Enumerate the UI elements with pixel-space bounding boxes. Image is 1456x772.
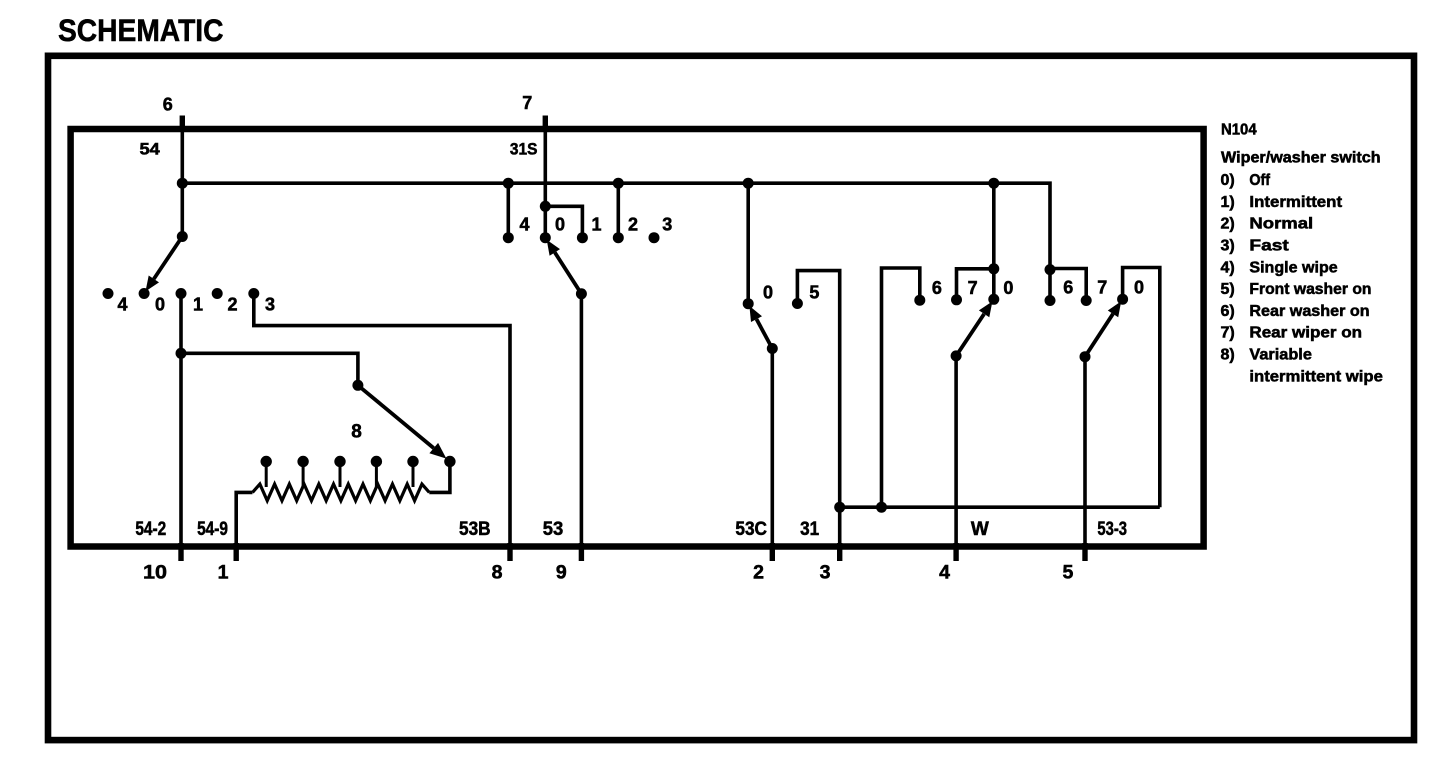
svg-text:Fast: Fast — [1249, 238, 1289, 255]
svg-text:54-2: 54-2 — [135, 519, 166, 540]
switch N104 housing box — [71, 129, 1204, 547]
wire 53-3 contact 0 up over and down to connector — [1123, 268, 1160, 508]
wire gamma from 53-3 riser to contact 7 — [1050, 269, 1086, 301]
svg-text:Normal: Normal — [1249, 216, 1313, 233]
resistor R8 wiper arrowhead — [429, 443, 446, 459]
terminal 8 stub — [507, 543, 512, 561]
terminal 9 stub — [579, 543, 584, 561]
wire terminal 7 (31S) down to contact 0 — [543, 129, 547, 238]
resistor tap 3 stem and dot — [339, 462, 342, 488]
wire 53C contact 5 up over and down to terminal 3 — [797, 271, 839, 544]
svg-text:53B: 53B — [459, 519, 491, 540]
switch 31S contact 2 dot — [613, 232, 624, 243]
wire terminal 6 to bus — [181, 129, 185, 236]
wire W contact 6 up over and down to connector — [882, 268, 920, 507]
resistor tap 6 dot — [444, 456, 455, 467]
switch 53-3 arm — [1085, 314, 1113, 357]
switch 54 pivot dot — [177, 231, 188, 242]
wire 31S pivot down to terminal 9 — [580, 294, 584, 544]
switch 53C arm — [757, 319, 773, 348]
wire resistor right end up to tap 6 — [429, 462, 450, 493]
wire terminal 1 to resistor left end — [236, 492, 252, 543]
wire switch 54 contact 1 down to terminal 10 — [179, 294, 183, 544]
svg-text:3): 3) — [1221, 238, 1235, 255]
switch 53-3 contact 7 dot — [1081, 295, 1092, 306]
switch 31S pivot dot — [576, 288, 587, 299]
svg-text:4): 4) — [1221, 259, 1235, 276]
svg-text:1: 1 — [193, 295, 203, 315]
switch W pivot dot — [951, 350, 962, 361]
resistor tap 1 stem and dot — [265, 462, 268, 488]
svg-text:1): 1) — [1221, 194, 1235, 211]
wire gamma from 31S line to contact 1 — [545, 206, 582, 237]
switch 54 contact 2 dot — [212, 288, 223, 299]
junction 53-3 riser at gamma branch — [1045, 264, 1056, 275]
svg-text:4: 4 — [117, 295, 127, 315]
switch 54 arm arrowhead — [146, 276, 160, 292]
svg-text:5: 5 — [809, 282, 819, 302]
svg-text:8: 8 — [492, 562, 503, 584]
switch 53-3 arm arrowhead — [1108, 301, 1121, 317]
svg-text:54-9: 54-9 — [197, 519, 228, 540]
svg-text:4: 4 — [519, 214, 529, 234]
svg-text:Variable: Variable — [1249, 347, 1312, 364]
svg-text:54: 54 — [140, 141, 161, 159]
svg-text:SCHEMATIC: SCHEMATIC — [58, 12, 224, 48]
switch 31S contact 1 dot — [577, 232, 588, 243]
svg-text:0: 0 — [555, 214, 565, 234]
switch W arm — [956, 314, 984, 356]
wire branch to resistor wiper pivot — [181, 353, 358, 385]
svg-text:7): 7) — [1221, 325, 1235, 342]
switch 53-3 pivot dot — [1080, 351, 1091, 362]
resistor R8 wiper arm — [358, 385, 434, 448]
svg-text:Front washer on: Front washer on — [1249, 281, 1371, 298]
terminal 7 stub — [543, 116, 548, 131]
svg-text:4: 4 — [939, 562, 950, 584]
svg-text:1: 1 — [218, 562, 229, 584]
connector wire across bottom y507 — [840, 505, 1160, 509]
svg-text:Single wipe: Single wipe — [1249, 259, 1337, 276]
switch 53C contact 0 dot — [743, 298, 754, 309]
switch 53C arm arrowhead — [749, 306, 762, 322]
wire 31S contact 4 riser to bus — [506, 183, 510, 238]
svg-text:W: W — [971, 519, 989, 540]
switch 54 contact 3 dot — [248, 288, 259, 299]
svg-text:intermittent wipe: intermittent wipe — [1249, 368, 1383, 385]
resistor tap 5 stem and dot — [412, 462, 415, 488]
svg-text:1: 1 — [591, 214, 601, 234]
svg-text:3: 3 — [662, 214, 672, 234]
svg-text:53: 53 — [543, 519, 564, 540]
wire 53C pivot down to terminal 2 — [770, 349, 774, 544]
switch 54 arm — [154, 237, 183, 280]
junction on terminal 10 wire — [176, 348, 187, 359]
junction bus at 53C riser — [743, 178, 754, 189]
switch 31S arm arrowhead — [547, 240, 560, 256]
svg-text:0: 0 — [1134, 278, 1144, 298]
svg-text:31: 31 — [800, 519, 819, 540]
switch 54 contact 0 dot — [139, 288, 150, 299]
svg-text:7: 7 — [522, 93, 532, 113]
resistor R8 wiper pivot dot — [352, 380, 363, 391]
switch 31S contact 0 dot — [540, 232, 551, 243]
switch 53-3 contact 6 dot — [1045, 295, 1056, 306]
terminal 10 stub — [178, 543, 183, 561]
svg-text:0): 0) — [1221, 172, 1235, 189]
resistor tap 2 stem and dot — [302, 462, 305, 488]
switch W contact 6 dot — [914, 295, 925, 306]
resistor R8 zigzag element — [253, 484, 430, 501]
svg-text:6: 6 — [1063, 278, 1073, 298]
terminal 1 stub — [233, 543, 238, 561]
svg-text:Off: Off — [1249, 172, 1270, 189]
svg-text:3: 3 — [265, 295, 275, 315]
switch 53C pivot dot — [767, 343, 778, 354]
svg-text:5: 5 — [1062, 562, 1073, 584]
switch 53C contact 5 dot — [792, 298, 803, 309]
wire W pivot down to terminal 4 — [954, 356, 958, 544]
terminal 3 stub — [837, 543, 842, 561]
switch 54 contact 1 dot — [176, 288, 187, 299]
switch W arm arrowhead — [979, 301, 993, 317]
svg-text:6): 6) — [1221, 303, 1235, 320]
switch W contact 7 dot — [951, 294, 962, 305]
svg-text:Rear wiper on: Rear wiper on — [1249, 325, 1362, 342]
wire 31S contact 2 riser to bus — [616, 183, 620, 238]
svg-text:3: 3 — [820, 562, 831, 584]
wire bus down to 53C contact 0 — [746, 183, 750, 304]
junction bus at terminal 6 — [177, 178, 188, 189]
junction on 31S wire at gamma branch — [540, 201, 551, 212]
terminal 5 stub — [1082, 543, 1087, 561]
switch 31S arm — [555, 252, 582, 293]
switch 54 contact 4 dot — [103, 288, 114, 299]
junction bus at 31S contact 2 riser — [613, 178, 624, 189]
svg-text:5): 5) — [1221, 281, 1235, 298]
svg-text:7: 7 — [968, 278, 978, 298]
svg-text:2: 2 — [227, 295, 237, 315]
switch 31S contact 4 dot — [503, 232, 514, 243]
svg-text:Wiper/washer switch: Wiper/washer switch — [1221, 150, 1381, 167]
resistor tap 4 stem and dot — [375, 462, 378, 488]
svg-text:Intermittent: Intermittent — [1249, 194, 1342, 211]
svg-text:0: 0 — [763, 282, 773, 302]
switch 53-3 contact 0 dot — [1117, 294, 1128, 305]
terminal 4 stub — [953, 543, 958, 561]
junction W contact 6 drop at connector — [876, 502, 887, 513]
junction bus at 31S contact 4 riser — [503, 178, 514, 189]
wire pi from W riser to contact 7 — [957, 269, 994, 300]
svg-text:10: 10 — [143, 562, 167, 584]
junction terminal 3 wire at connector — [834, 502, 845, 513]
terminal 2 stub — [770, 543, 775, 561]
junction W riser at pi branch — [988, 263, 999, 274]
wire W riser from bus to contact 0 — [992, 183, 996, 299]
svg-text:2): 2) — [1221, 216, 1235, 233]
svg-text:53-3: 53-3 — [1097, 519, 1127, 540]
svg-text:9: 9 — [556, 562, 567, 584]
wire switch 54 contact 3 down right to terminal 8 — [254, 294, 510, 544]
junction bus at W riser — [988, 178, 999, 189]
switch W contact 0 dot — [988, 294, 999, 305]
terminal 6 stub — [180, 116, 185, 131]
svg-text:Rear washer on: Rear washer on — [1249, 303, 1369, 320]
bus wire from terminal 6 across top, corner down to 53-3 contact 6 — [182, 183, 1050, 300]
wire 53-3 pivot down to terminal 5 — [1083, 357, 1087, 544]
svg-text:31S: 31S — [510, 140, 538, 158]
svg-text:8: 8 — [351, 422, 362, 443]
svg-text:6: 6 — [932, 278, 942, 298]
svg-text:N104: N104 — [1221, 121, 1257, 138]
svg-text:8): 8) — [1221, 347, 1235, 364]
svg-text:2: 2 — [628, 214, 638, 234]
svg-text:7: 7 — [1097, 278, 1107, 298]
switch 31S contact 3 dot — [649, 232, 660, 243]
svg-text:0: 0 — [155, 295, 165, 315]
svg-text:2: 2 — [753, 562, 764, 584]
svg-text:53C: 53C — [735, 519, 767, 540]
svg-text:6: 6 — [163, 95, 173, 115]
svg-text:0: 0 — [1003, 278, 1013, 298]
